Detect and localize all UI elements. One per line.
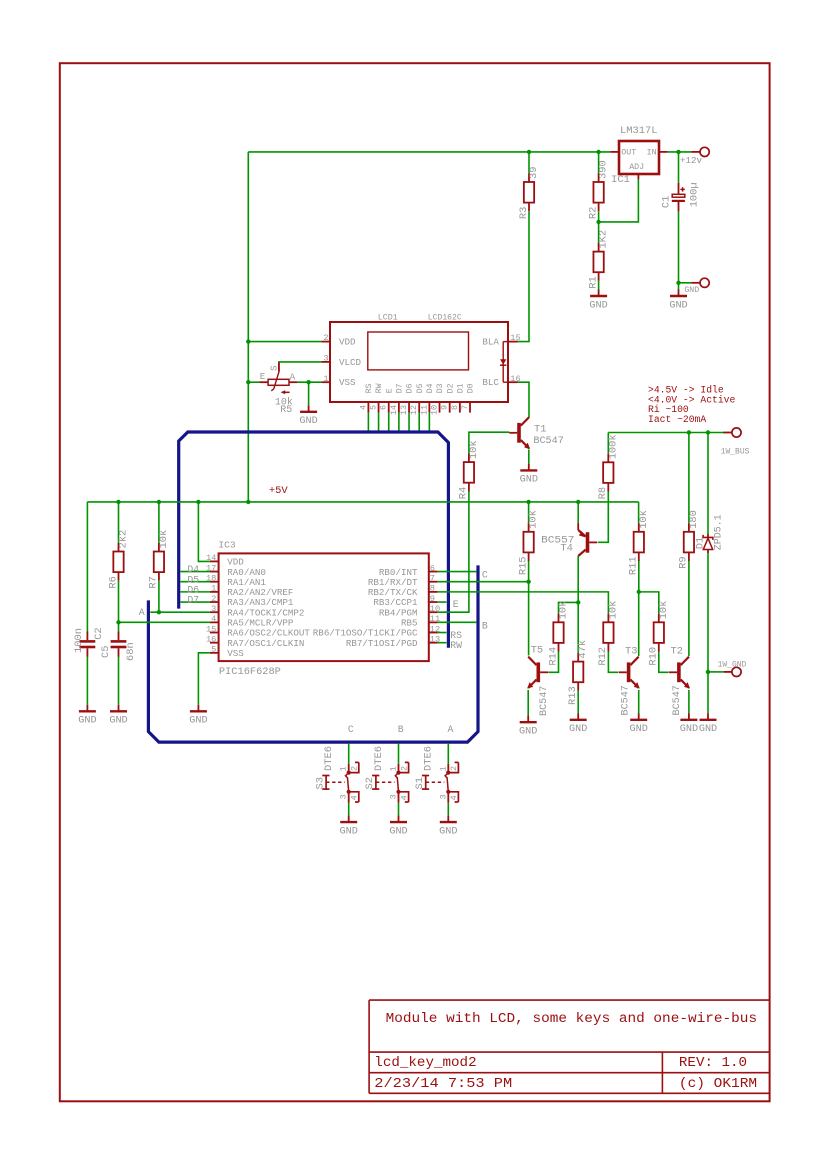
wire net A from keys bus to RA4 [150,611,210,613]
svg-text:R4: R4 [458,487,470,499]
svg-text:R12: R12 [597,647,609,666]
resistor R13 47k [567,640,589,705]
wire key S1 to ground [447,803,449,816]
resistor R8 100k [607,433,609,454]
voltage regulator IC1 LM317L [610,125,668,186]
wire T2 collector to R9 [688,561,690,656]
wire to GND pin [679,282,692,284]
svg-text:IN: IN [647,148,657,157]
svg-text:GND: GND [589,300,607,311]
resistor R12 10k [597,601,619,666]
resistor R1 1K2 [598,222,600,243]
svg-text:Module with LCD, some keys and: Module with LCD, some keys and one-wire-… [386,1011,757,1027]
svg-text:GND: GND [78,716,96,727]
svg-text:6: 6 [379,405,389,410]
key switch S2 DTE6 [364,746,409,803]
svg-text:10k: 10k [158,530,170,549]
svg-text:180: 180 [688,510,700,529]
svg-text:1W_BUS: 1W_BUS [721,448,750,457]
key switch S3 DTE6 [314,746,359,803]
wire R4 top to T1 base [469,432,509,453]
svg-text:10: 10 [430,405,440,415]
svg-text:GND: GND [630,724,648,735]
transistor T1 BC547 [509,417,530,449]
wire key S3 to ground [348,803,350,816]
svg-text:R6: R6 [107,576,119,588]
svg-text:R9: R9 [678,556,690,568]
wire R13 to ground [577,691,579,714]
wire vertical +5V feed (OUT to +5V rail) [247,152,249,502]
svg-text:39: 39 [528,167,540,179]
svg-text:R10: R10 [648,647,660,666]
wire RB1 to one-wire node [438,581,529,583]
wire T3 collector up [638,592,640,656]
svg-text:3: 3 [438,794,448,799]
zener diode D1 ZPD5.1 [694,433,724,714]
resistor R6 2k2 [118,502,120,543]
svg-text:15: 15 [206,624,216,634]
ground at 1W_GND [699,713,717,735]
wire R8 to T4 base [598,492,608,543]
svg-text:47k: 47k [577,640,589,659]
svg-text:R14: R14 [547,647,559,666]
svg-text:1: 1 [323,374,328,384]
bus main (LCD to MCU) [179,432,449,648]
svg-text:VSS: VSS [227,648,244,659]
svg-text:LCD1: LCD1 [378,312,398,322]
svg-text:1: 1 [211,584,216,594]
wire top rail from +5V vertical to IC1 OUT [248,151,610,153]
svg-text:GND: GND [389,826,407,837]
svg-text:T3: T3 [625,646,637,658]
svg-text:S: S [269,365,280,371]
junction R2-R1-ADJ [596,220,600,224]
svg-text:10k: 10k [607,601,619,620]
svg-text:2: 2 [323,333,328,343]
pin 1W_BUS [723,432,732,434]
wire R7 to RA4 [158,581,160,613]
svg-text:RS: RS [365,383,374,393]
svg-text:BC547: BC547 [533,435,563,447]
transistor T5 BC547 [527,657,548,689]
svg-text:S3: S3 [314,777,326,789]
junction R6/C5/RA5 [116,620,120,624]
svg-text:R8: R8 [597,487,609,499]
svg-text:4: 4 [211,614,216,624]
svg-text:BC547: BC547 [538,686,550,716]
svg-text:T5: T5 [531,644,543,656]
junction 1W_GND [706,670,710,674]
svg-text:IC3: IC3 [218,540,236,551]
svg-text:12: 12 [409,405,419,415]
wires D4-D7 from bus to PORTA [180,571,210,573]
svg-text:390: 390 [598,160,610,179]
svg-text:D0: D0 [467,383,476,393]
wire net E (RB4) to R4 [438,491,469,613]
svg-text:15: 15 [510,333,520,343]
+5V rail [87,501,638,503]
svg-text:4: 4 [449,795,459,800]
svg-text:C5: C5 [100,646,112,658]
svg-text:2: 2 [350,766,360,771]
svg-text:REV: 1.0: REV: 1.0 [679,1055,747,1071]
svg-text:C2: C2 [93,627,105,639]
svg-text:8: 8 [430,584,435,594]
svg-text:T1: T1 [534,423,546,435]
svg-text:16: 16 [206,634,216,644]
svg-text:R7: R7 [148,576,160,588]
wire R12 to T3 base [608,652,618,673]
svg-text:1: 1 [438,766,448,771]
svg-text:2k2: 2k2 [118,530,130,549]
svg-text:A: A [448,724,454,735]
svg-text:R3: R3 [518,207,530,219]
svg-text:R13: R13 [567,686,579,705]
svg-text:lcd_key_mod2: lcd_key_mod2 [374,1055,476,1071]
wire net C (RB0) [438,571,477,573]
svg-text:GND: GND [109,716,127,727]
svg-text:C: C [348,724,354,735]
svg-text:5: 5 [211,645,216,655]
ground under IC3 VSS [189,705,207,727]
svg-text:B: B [482,620,488,631]
svg-text:100k: 100k [607,434,619,459]
wire VDD pin to rail [198,502,210,562]
svg-text:1: 1 [339,766,349,771]
wire RS (RB6) to bus [438,632,447,634]
svg-text:R15: R15 [517,556,529,575]
wire T4 collector down [577,556,579,653]
svg-text:E: E [453,599,459,610]
svg-text:9: 9 [440,405,450,410]
svg-text:E: E [260,371,266,382]
svg-text:GND: GND [520,475,538,486]
wire VSS to ground [198,653,210,705]
junction T3 collector node [637,590,641,594]
svg-text:E: E [385,388,394,393]
svg-text:D7: D7 [395,383,404,393]
junction C1 bottom / GND pin [676,281,680,285]
wire VLCD from pot wiper [279,362,322,371]
svg-text:D3: D3 [436,383,445,393]
svg-text:IC1: IC1 [611,174,630,186]
wire R10 to T2 base [659,652,669,673]
svg-text:10k: 10k [528,510,540,529]
wire R3 to LCD BLA [518,211,529,341]
svg-text:PIC16F628P: PIC16F628P [219,666,281,678]
resistor R7 10k [158,502,160,543]
capacitor C1 100u [661,152,701,283]
svg-text:GND: GND [569,724,587,735]
wire R11 to T2 base node [638,561,640,592]
junction rail R6 [116,500,120,504]
svg-text:9: 9 [430,594,435,604]
svg-text:LCD162C: LCD162C [428,312,462,322]
svg-text:C: C [482,570,488,581]
svg-text:RW: RW [450,640,462,651]
svg-text:B: B [398,724,404,735]
svg-text:D1: D1 [456,383,465,393]
ground under pot [299,405,317,427]
svg-text:RB7/T1OSI/PGD: RB7/T1OSI/PGD [346,638,418,649]
svg-text:D1: D1 [694,537,706,549]
svg-text:7: 7 [460,405,470,410]
svg-text:A: A [290,372,296,383]
transistor T3 BC547 [619,657,640,689]
junction R14 branch [576,600,580,604]
svg-text:R5: R5 [280,405,292,416]
junction T4 emitter rail [576,500,580,504]
svg-text:1: 1 [389,766,399,771]
svg-text:D6: D6 [406,383,415,393]
svg-text:DTE6: DTE6 [323,746,335,771]
junction R7/RA4 [157,610,161,614]
resistor R15 10k [528,502,530,523]
wire one-wire node down to T5 [528,561,530,655]
svg-text:1W_GND: 1W_GND [718,660,747,669]
ground under R13 [569,713,587,735]
ground under S2 [389,816,407,838]
junction pot A / VSS [306,380,310,384]
junction C1 top [676,150,680,154]
wire pot A to ground [308,382,310,405]
frame border [60,63,770,1101]
svg-text:100µ: 100µ [689,182,701,207]
wire bus to key S3 [348,744,350,764]
junction R3 top [527,150,531,154]
wire net B (RB5) [438,621,477,623]
ground under C1 [678,283,680,290]
svg-text:ZPD5.1: ZPD5.1 [712,514,724,550]
ground under T2 [680,713,698,735]
svg-text:GND: GND [699,724,717,735]
wire R2 bottom to junction [598,211,600,222]
svg-text:GND: GND [340,826,358,837]
svg-text:DTE6: DTE6 [373,746,385,771]
resistor R14 10k [547,601,569,666]
wire VDD [248,341,321,343]
junction VDD/rail [196,500,200,504]
resistor R2 390 [598,152,600,174]
ground under C5 [109,705,127,727]
junction R15 rail [526,500,530,504]
svg-text:LM317L: LM317L [620,125,658,137]
svg-text:GND: GND [684,286,699,295]
svg-text:7: 7 [430,574,435,584]
wire IN to +12V pin [668,151,692,153]
svg-text:GND: GND [439,826,457,837]
svg-text:13: 13 [399,405,409,415]
junction D1 line [706,430,710,434]
svg-text:GND: GND [680,724,698,735]
svg-text:D4: D4 [426,383,435,393]
wire T1 emitter to ground [528,450,530,464]
ground under T5 [519,716,537,738]
wire to R14 [559,602,579,613]
wires LCD data pins to bus [367,413,369,432]
svg-text:VDD: VDD [339,337,356,348]
pin 1W_GND [723,671,732,673]
junction pot E side [246,380,250,384]
svg-text:14: 14 [389,405,399,415]
resistor R10 10k [648,601,670,666]
wire pot E [248,381,259,383]
svg-text:D5: D5 [416,383,425,393]
svg-text:D7: D7 [187,595,199,606]
svg-text:10k: 10k [558,601,570,620]
wire 1W_BUS rail [608,432,725,434]
wire R14 to T5 base [548,652,558,673]
capacitor C5 68n [100,632,137,705]
svg-text:VLCD: VLCD [339,357,362,368]
svg-text:R1: R1 [587,276,599,288]
svg-text:4: 4 [399,795,409,800]
svg-text:GND: GND [519,727,537,738]
key switch S1 DTE6 [414,746,459,803]
svg-text:RW: RW [375,383,384,393]
svg-text:D2: D2 [446,383,455,393]
svg-text:GND: GND [669,300,687,311]
svg-text:2: 2 [211,594,216,604]
svg-text:ADJ: ADJ [629,163,644,172]
svg-text:10k: 10k [638,510,650,529]
wire bus to key S1 [447,744,449,764]
svg-text:2: 2 [449,766,459,771]
wire T2 emitter to ground [688,690,690,713]
svg-text:T4: T4 [560,543,572,555]
junction R2 top [596,150,600,154]
wire RB3 to bus [438,601,447,603]
svg-text:GND: GND [299,416,317,427]
svg-text:+5V: +5V [269,485,289,497]
svg-text:BLC: BLC [482,377,499,388]
svg-text:R11: R11 [628,556,640,575]
svg-text:2: 2 [399,766,409,771]
resistor R3 39 [528,152,530,174]
junction rail R7 [157,500,161,504]
resistor R4 10k [458,440,480,499]
wire T5 emitter to ground [527,690,529,716]
svg-text:3: 3 [339,794,349,799]
junction R9 line [687,430,691,434]
svg-text:1K2: 1K2 [598,230,610,249]
ground under C2 [78,705,96,727]
svg-text:4: 4 [350,795,360,800]
svg-text:(c) OK1RM: (c) OK1RM [679,1076,757,1092]
bus keys (A/B/C) [148,565,478,742]
pin +12V [691,151,700,153]
backlight LED inside LCD [500,342,508,383]
svg-text:3: 3 [323,354,328,364]
resistor R11 10k [638,502,640,523]
svg-text:3: 3 [211,604,216,614]
potentiometer R5 10k [260,362,298,416]
wire RW (RB7) to bus [438,642,447,644]
svg-text:8: 8 [450,405,460,410]
svg-text:VSS: VSS [339,377,356,388]
wire to 1W_GND pin [708,671,723,673]
wire key S2 to ground [398,803,400,816]
wire R1 bottom [598,281,600,290]
wire VSS [297,381,321,383]
svg-text:S2: S2 [364,777,376,789]
junction VDD feed [246,339,250,343]
ground under S3 [340,816,358,838]
svg-text:10k: 10k [658,601,670,620]
junction rail vertical feed [246,500,250,504]
svg-text:3: 3 [389,794,399,799]
svg-text:S1: S1 [414,777,426,789]
capacitor C2 100n [73,502,105,705]
svg-text:2/23/14 7:53 PM: 2/23/14 7:53 PM [374,1076,512,1092]
annotation one-wire levels [648,385,735,426]
svg-text:4: 4 [358,405,368,410]
LCD module LCD1 LCD162C [321,312,520,415]
svg-text:100n: 100n [73,628,85,653]
ground under R1 [589,290,607,312]
svg-text:BC547: BC547 [671,685,683,715]
wire ADJ to R1/R2 junction [599,180,639,222]
junction one-wire/RB1 [526,580,530,584]
pin GND (supply) [691,282,700,284]
svg-text:68n: 68n [125,642,137,661]
svg-text:BC547: BC547 [620,685,632,715]
svg-text:+12v: +12v [680,155,703,166]
title block [369,1000,769,1093]
svg-text:11: 11 [419,405,429,415]
svg-text:GND: GND [189,716,207,727]
ground under S1 [439,816,457,838]
wire BLC to T1 collector [518,382,529,417]
ground under T1 [520,464,538,486]
svg-text:DTE6: DTE6 [423,746,435,771]
svg-text:C1: C1 [661,196,673,208]
svg-text:R2: R2 [587,207,599,219]
resistor R9 180 [688,433,690,524]
wire T3 emitter to ground [638,690,640,713]
wire node to R10 [639,592,659,614]
svg-text:T2: T2 [671,646,683,658]
svg-text:5: 5 [369,405,379,410]
svg-text:A: A [139,607,145,618]
transistor T2 BC547 [669,657,690,689]
wire bus to key S2 [398,744,400,764]
svg-text:Iact ~20mA: Iact ~20mA [648,414,706,425]
ground under T3 [630,713,648,735]
svg-text:6: 6 [430,563,435,573]
transistor T4 BC557 [577,502,579,523]
microcontroller IC3 PIC16F628P [206,540,440,679]
wire R6 to MCLR and C5 [118,581,120,632]
wire RB2 to R12 [438,592,609,614]
svg-text:BLA: BLA [482,337,499,348]
svg-text:OUT: OUT [621,148,636,157]
